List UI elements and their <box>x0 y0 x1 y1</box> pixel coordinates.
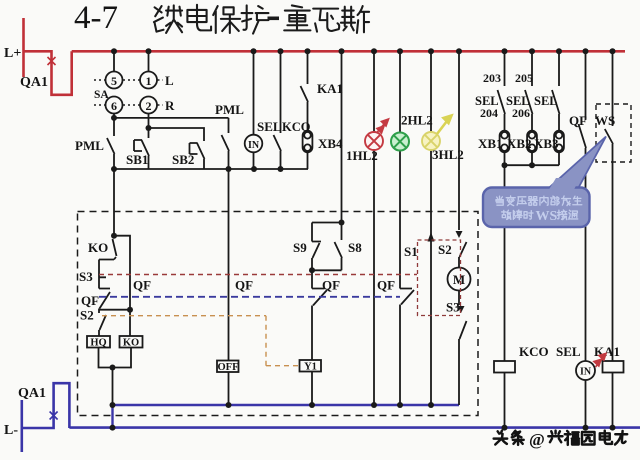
svg-text:SB2: SB2 <box>172 152 194 167</box>
contact S8 <box>312 223 342 271</box>
svg-text:1HL2: 1HL2 <box>346 148 378 163</box>
svg-text:SB1: SB1 <box>126 152 148 167</box>
terminal L+ <box>22 18 25 77</box>
breaker open mark (blue x) <box>50 412 58 420</box>
wire Y1 to bus <box>311 372 313 406</box>
contact PML (right) <box>222 118 230 169</box>
junction L+ bus / S2 motor cell <box>456 48 462 54</box>
L+ terminal and QA1 breaker (red) <box>24 18 626 95</box>
contact QF (right) <box>579 51 587 361</box>
junction L+ bus / SEL meter <box>251 48 257 54</box>
junction KO branch split <box>111 233 117 239</box>
svg-text:5: 5 <box>111 74 117 88</box>
wire XB3 down <box>558 153 560 166</box>
svg-text:S2: S2 <box>80 308 94 323</box>
coil KO <box>120 336 143 348</box>
svg-text:SEL: SEL <box>534 94 558 108</box>
contact SEL 203/204 <box>498 51 506 130</box>
wire bus to circle 1 <box>148 51 150 71</box>
contact SEL (third) <box>552 51 560 130</box>
S2 drive arrow <box>456 231 463 238</box>
svg-text:XB1: XB1 <box>478 136 503 151</box>
contact 2 <box>140 97 157 114</box>
junction L+ bus / QF right <box>583 48 589 54</box>
coil KA1 <box>603 361 624 373</box>
svg-text:R: R <box>165 98 175 113</box>
svg-text:KCO: KCO <box>282 120 311 134</box>
bubble body <box>483 188 590 228</box>
wire <box>458 291 460 306</box>
title CJK 继电保护-重瓦斯 (drawn glyphs) <box>154 5 269 34</box>
svg-text:KCO: KCO <box>519 344 549 359</box>
svg-text:SA: SA <box>94 89 109 101</box>
junction L+ bus / 3HL2 <box>428 48 434 54</box>
junction L- bus / KA1 <box>610 425 616 431</box>
red linkage <box>99 274 417 276</box>
svg-text:2HL2: 2HL2 <box>401 113 433 128</box>
lamp 2HL2 (green) <box>391 133 409 151</box>
wire to S9/S8 <box>341 51 343 222</box>
wire OFF column from rail <box>228 169 230 361</box>
svg-text:QA1: QA1 <box>18 386 46 401</box>
link XB1 <box>500 131 510 153</box>
L+ bus <box>72 50 625 53</box>
svg-text:2: 2 <box>146 99 152 113</box>
svg-text:S9: S9 <box>293 240 307 255</box>
svg-text:KO: KO <box>123 338 139 349</box>
svg-text:M: M <box>453 272 465 287</box>
junction KO coil branch <box>127 307 133 313</box>
junction XB collector / XB2 <box>529 162 535 168</box>
wire meter to L- bus <box>585 380 587 428</box>
svg-text:PML: PML <box>75 138 104 153</box>
coil KCO <box>494 361 515 373</box>
branch split <box>312 222 342 224</box>
svg-text:QF: QF <box>569 113 587 128</box>
svg-text:QF: QF <box>377 278 395 293</box>
svg-text:6: 6 <box>111 99 117 113</box>
junction inner bus / coils drop <box>110 402 116 408</box>
svg-text:XB2: XB2 <box>507 136 532 151</box>
junction L+ bus / 1HL2 <box>371 48 377 54</box>
svg-text:L: L <box>165 73 174 88</box>
svg-text:1: 1 <box>146 74 152 88</box>
svg-text:@: @ <box>529 430 545 449</box>
junction collector rail / OFF branch <box>226 166 232 172</box>
svg-text:QA1: QA1 <box>20 75 48 90</box>
svg-text:PML: PML <box>215 102 244 117</box>
junction collector rail / KCO contact <box>278 166 284 172</box>
SA linkage dotted <box>94 80 163 105</box>
dashed box WS <box>596 104 631 162</box>
S3 drive arrow <box>458 306 465 313</box>
wire XB4 to rail <box>307 153 309 170</box>
contact S9 <box>312 223 321 271</box>
junction L+ bus / SEL 3 <box>556 48 562 54</box>
bubble text line1: 当变压器内部发生 <box>496 196 582 206</box>
svg-text:IN: IN <box>580 367 592 378</box>
coil HQ <box>87 336 110 348</box>
wire <box>22 383 70 428</box>
contact 6 <box>106 97 123 114</box>
svg-text:QF: QF <box>322 278 340 293</box>
meter SEL (IN) bottom <box>576 361 595 380</box>
svg-text:IN: IN <box>248 140 260 151</box>
junction L- bus / SEL meter <box>583 425 589 431</box>
motor M <box>448 268 471 291</box>
svg-text:SEL: SEL <box>257 119 282 134</box>
contact KCO <box>274 51 282 169</box>
contact PML (left) <box>107 118 115 169</box>
svg-text:XB4: XB4 <box>318 136 343 151</box>
lamp 3HL2 (yellow) <box>422 132 440 150</box>
wire to KCO coil <box>504 165 506 361</box>
orange linkage to Y1 <box>102 316 300 366</box>
contact 1 <box>140 72 157 89</box>
link XB2 <box>527 131 537 153</box>
svg-text:204: 204 <box>480 106 498 120</box>
svg-text:S1: S1 <box>404 244 418 259</box>
wire OFF coil to inner bus <box>228 372 230 405</box>
contact KO <box>113 236 117 260</box>
junction inner bus / 3HL2 <box>428 402 434 408</box>
junction L+ bus / KCO contact <box>278 48 284 54</box>
svg-text:S3: S3 <box>79 269 93 284</box>
node joining KO coil branch <box>99 309 130 311</box>
wire KCO coil to L- bus <box>504 373 506 428</box>
junction SA-6 rail <box>111 115 117 121</box>
contact S2 <box>99 315 106 336</box>
svg-text:S2: S2 <box>438 242 452 257</box>
svg-text:L+: L+ <box>4 46 21 61</box>
junction inner bus / 2HL2 <box>397 402 403 408</box>
contact S3 (motor driven) <box>459 321 467 405</box>
bubble tail <box>546 137 606 191</box>
svg-text:QF: QF <box>133 278 151 293</box>
contact S2 (motor driven) <box>459 242 467 268</box>
svg-text:OFF: OFF <box>218 362 239 373</box>
wire to SEL meter <box>253 51 255 134</box>
wires coils to bus <box>99 348 132 406</box>
junction inner bus / OFF <box>226 402 232 408</box>
svg-text:4-7: 4-7 <box>74 0 118 36</box>
contact SB2 <box>190 138 205 169</box>
junction inner bus / 1HL2 <box>371 402 377 408</box>
junction collector rail / SEL meter <box>251 166 257 172</box>
contact SEL 205/206 <box>525 51 533 130</box>
junction L+ bus / SA-5 <box>111 48 117 54</box>
lamp 2HL2 column <box>399 51 401 288</box>
junction L+ bus / 2HL2 <box>397 48 403 54</box>
svg-text:WS: WS <box>595 113 615 128</box>
L- bus <box>69 426 640 429</box>
breaker open mark (red x) <box>48 57 56 65</box>
contact QF (2HL2 column) <box>400 289 414 406</box>
svg-text:XB3: XB3 <box>534 136 559 151</box>
junction L+ bus / SA-1 <box>146 48 152 54</box>
svg-text:L-: L- <box>4 423 18 438</box>
branch to KO coil <box>114 236 130 336</box>
junction L+ bus / S9-S8 <box>339 48 345 54</box>
contact QF (Y1 branch) <box>312 270 327 360</box>
wire circle2 down <box>148 114 150 129</box>
svg-text:206: 206 <box>512 106 530 120</box>
svg-text:203: 203 <box>483 71 501 85</box>
svg-text:S3: S3 <box>446 300 460 315</box>
bubble text line2: 故障时WS接通 <box>502 210 533 220</box>
junction L- bus / inner bus drop <box>110 425 116 431</box>
contact WS <box>605 51 613 361</box>
contact KA1 <box>301 51 309 130</box>
junction L+ bus / SEL 203 <box>502 48 508 54</box>
contact 5 <box>106 72 123 89</box>
rail from SA6 to PML2 <box>114 117 229 119</box>
blue drop to L- bus <box>111 405 113 428</box>
wire <box>24 51 72 95</box>
svg-text:Y1: Y1 <box>304 362 317 373</box>
junction S9/S8 merge <box>309 267 315 273</box>
link XB3 <box>554 131 564 153</box>
svg-text:KA1: KA1 <box>594 344 620 359</box>
link XB4 <box>303 131 313 153</box>
contact QF (left) <box>99 289 110 314</box>
yellow arrow <box>437 116 452 135</box>
junction L+ bus / WS <box>610 48 616 54</box>
wire meter to rail <box>253 152 255 169</box>
coil Y1 <box>300 360 322 372</box>
svg-text:SEL: SEL <box>556 344 581 359</box>
blue linkage QF <box>99 296 400 298</box>
terminal L- <box>20 400 23 452</box>
svg-text:KO: KO <box>88 240 108 255</box>
wire KA1 coil to L- bus <box>612 373 614 428</box>
wire down from rail <box>113 169 115 236</box>
small dashed box S1/S2 <box>418 240 461 316</box>
svg-text:WS: WS <box>536 209 558 224</box>
coil OFF <box>217 361 239 406</box>
rail from SA2 to SB2 <box>149 128 205 138</box>
lamp 3HL2 column (S1) <box>430 51 432 405</box>
lamp 1HL2 (red) <box>365 132 383 150</box>
junction S9/S8 split <box>339 220 345 226</box>
svg-text:S8: S8 <box>348 240 362 255</box>
junction L- bus / KCO <box>502 425 508 431</box>
junction XB collector / XB1 <box>502 162 508 168</box>
svg-text:KA1: KA1 <box>317 81 343 96</box>
junction inner bus / Y1 <box>309 402 315 408</box>
S1 drive arrow on column <box>428 232 435 242</box>
wire XB1 down <box>504 153 506 166</box>
junction HQ/KO coils merge <box>110 365 116 371</box>
lamp 1HL2 column <box>373 51 375 405</box>
wire from bus <box>458 51 460 230</box>
svg-text:QF: QF <box>235 278 253 293</box>
svg-text:HQ: HQ <box>90 338 106 349</box>
svg-text:205: 205 <box>515 71 533 85</box>
meter SEL (IN) <box>245 135 263 153</box>
inner blue bus <box>113 404 460 406</box>
wire XB collector <box>505 164 560 166</box>
collector rail <box>114 168 308 170</box>
junction SA-2 rail <box>146 125 152 131</box>
junction collector rail / left branch <box>111 166 117 172</box>
svg-text:QF: QF <box>81 293 99 308</box>
L- terminal and QA1 breaker (blue) <box>22 383 640 452</box>
junction L+ bus / KA1 contact <box>305 48 311 54</box>
contact SB1 <box>134 128 149 169</box>
wire circle6 to rail <box>113 114 115 119</box>
red arrow <box>377 119 389 133</box>
junction L+ bus / SEL 205 <box>529 48 535 54</box>
wire bus to circle 5 <box>113 51 115 71</box>
wire XB2 down <box>531 153 533 166</box>
jumper S3 <box>99 260 114 289</box>
